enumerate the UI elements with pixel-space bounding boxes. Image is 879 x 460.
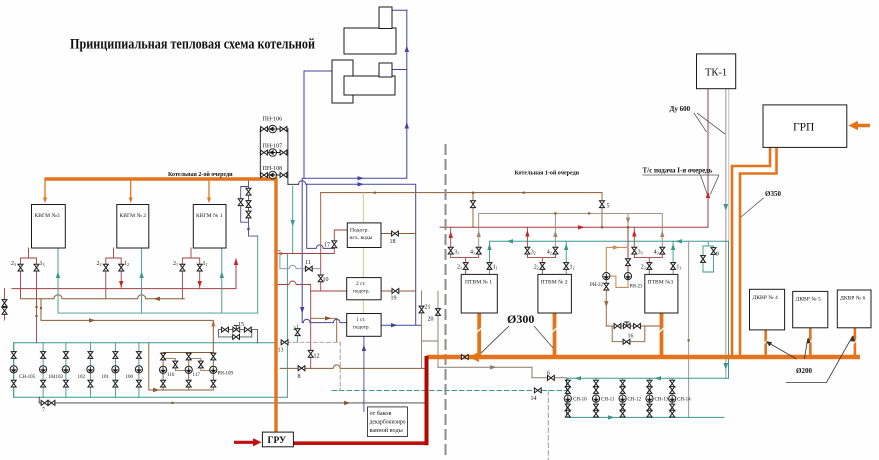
svg-text:9: 9	[716, 252, 719, 258]
svg-text:подогр.: подогр.	[353, 289, 370, 295]
svg-text:12: 12	[570, 265, 575, 271]
svg-text:СН-14: СН-14	[677, 398, 691, 403]
svg-text:РН-109: РН-109	[218, 372, 234, 377]
svg-text:41: 41	[470, 250, 475, 256]
svg-text:2: 2	[293, 326, 296, 332]
svg-text:21: 21	[425, 305, 431, 311]
svg-text:ПН-108: ПН-108	[263, 166, 283, 172]
svg-text:17: 17	[324, 243, 330, 249]
svg-text:19: 19	[391, 296, 397, 302]
svg-text:12: 12	[314, 354, 320, 360]
svg-text:исх. воды: исх. воды	[350, 235, 373, 241]
svg-text:23: 23	[641, 265, 646, 271]
svg-text:13: 13	[278, 348, 284, 354]
svg-text:декарбонизиро: декарбонизиро	[370, 419, 406, 426]
svg-text:22: 22	[534, 265, 539, 271]
svg-text:Принципиальная тепловая схема: Принципиальная тепловая схема котельной	[70, 37, 315, 53]
svg-text:ПТВМ №3: ПТВМ №3	[648, 280, 674, 286]
svg-text:ДКВР № 4: ДКВР № 4	[753, 295, 779, 301]
svg-text:СН-10: СН-10	[573, 398, 587, 403]
svg-text:1 ст.: 1 ст.	[356, 317, 366, 323]
svg-text:СН-11: СН-11	[601, 398, 615, 403]
svg-text:15: 15	[238, 322, 244, 328]
svg-text:Котельная 2-ой очереди: Котельная 2-ой очереди	[168, 171, 233, 178]
svg-text:РН-23: РН-23	[630, 285, 644, 290]
svg-text:СН-105: СН-105	[19, 375, 36, 380]
svg-text:23: 23	[11, 261, 16, 267]
svg-text:33: 33	[638, 250, 643, 256]
svg-text:РН-22: РН-22	[590, 283, 604, 288]
svg-text:СН-12: СН-12	[628, 398, 642, 403]
svg-text:13: 13	[40, 261, 45, 267]
svg-text:Ø300: Ø300	[507, 312, 534, 326]
svg-text:21: 21	[457, 265, 462, 271]
svg-text:42: 42	[547, 250, 552, 256]
svg-text:ПТВМ № 1: ПТВМ № 1	[465, 280, 492, 286]
svg-text:101: 101	[102, 375, 110, 380]
svg-text:ГРП: ГРП	[793, 122, 814, 134]
svg-text:ТК-1: ТК-1	[705, 68, 727, 79]
svg-text:100: 100	[126, 375, 134, 380]
svg-text:Котельная 1-ой очереди: Котельная 1-ой очереди	[515, 170, 580, 177]
svg-text:117: 117	[193, 373, 201, 378]
svg-text:ДКВР № 5: ДКВР № 5	[796, 297, 822, 303]
svg-text:от баков: от баков	[370, 410, 392, 417]
svg-text:102: 102	[78, 375, 86, 380]
svg-text:ванной воды: ванной воды	[370, 427, 404, 434]
svg-text:КВГМ № 1: КВГМ № 1	[196, 213, 223, 219]
svg-text:14: 14	[531, 396, 537, 402]
svg-text:ПН-107: ПН-107	[263, 144, 283, 150]
svg-text:11: 11	[493, 265, 498, 271]
svg-text:11: 11	[305, 260, 311, 266]
svg-text:12: 12	[124, 261, 129, 267]
svg-text:КВГМ № 2: КВГМ № 2	[120, 213, 147, 219]
svg-text:31: 31	[454, 250, 459, 256]
svg-text:6: 6	[547, 371, 550, 377]
svg-text:116: 116	[167, 373, 175, 378]
svg-text:Ø200: Ø200	[796, 367, 812, 375]
svg-text:16: 16	[628, 334, 634, 340]
svg-text:подогр.: подогр.	[353, 325, 370, 331]
svg-text:ДКВР № 6: ДКВР № 6	[840, 296, 866, 302]
svg-text:ПТВМ № 2: ПТВМ № 2	[541, 280, 568, 286]
svg-text:20: 20	[428, 317, 434, 323]
svg-text:10: 10	[323, 277, 329, 283]
svg-text:КВГМ №3: КВГМ №3	[35, 213, 60, 219]
svg-text:Ду 600: Ду 600	[670, 105, 691, 113]
svg-text:21: 21	[173, 261, 178, 267]
svg-text:13: 13	[676, 265, 681, 271]
svg-text:7: 7	[42, 408, 45, 414]
svg-text:32: 32	[531, 250, 536, 256]
svg-text:11: 11	[203, 261, 208, 267]
svg-text:СН-13: СН-13	[655, 398, 669, 403]
svg-text:2 ст.: 2 ст.	[356, 281, 366, 287]
svg-text:8: 8	[298, 374, 301, 380]
svg-text:18: 18	[390, 239, 396, 245]
svg-text:Ø350: Ø350	[765, 190, 781, 198]
svg-text:22: 22	[97, 261, 102, 267]
svg-text:ГРУ: ГРУ	[268, 436, 287, 446]
svg-text:ПН-106: ПН-106	[263, 117, 283, 123]
svg-text:Подогр.: Подогр.	[350, 228, 369, 234]
svg-text:104103: 104103	[48, 375, 64, 380]
svg-text:43: 43	[654, 250, 659, 256]
svg-text:Т/с подача I-я очередь: Т/с подача I-я очередь	[643, 167, 713, 175]
svg-text:5: 5	[607, 204, 610, 210]
